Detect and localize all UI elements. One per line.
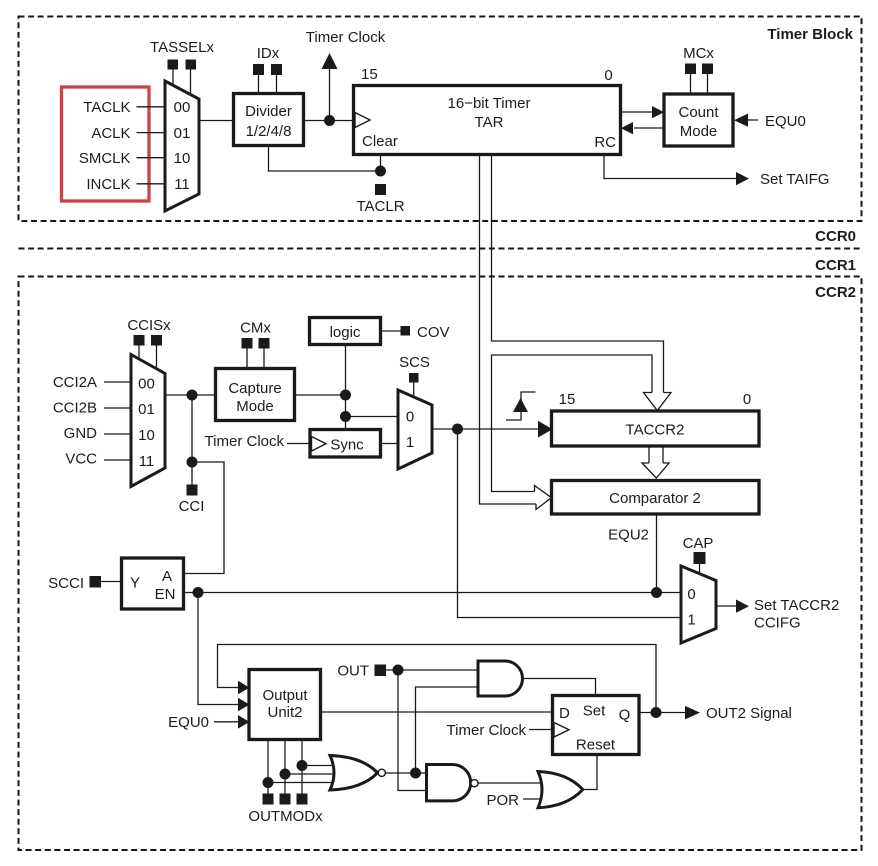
wire TAR bottom to TACLR junction [269, 146, 381, 172]
arrowhead Set TACCR2 CCIFG [736, 600, 749, 613]
wire CMx square 2 to Capture Mode [263, 349, 265, 370]
svg-text:Output: Output [262, 687, 308, 704]
wire mux output to Divider [199, 120, 234, 122]
wire POR to OR [523, 798, 548, 800]
arrowhead EQU0 into Count Mode [734, 114, 748, 127]
block Sync [310, 430, 381, 458]
wire TAR bus right line down, branch to TACCR2 arrow [492, 155, 664, 393]
svg-text:Set TACCR2: Set TACCR2 [754, 597, 839, 614]
wire logic down to Sync [345, 345, 347, 430]
junction OUT2 node [651, 707, 662, 718]
wire Timer Clock to Sync [287, 443, 310, 445]
arrow Timer Clock up [322, 53, 338, 69]
svg-text:Comparator 2: Comparator 2 [609, 490, 701, 507]
wire INCLK to mux [137, 183, 166, 185]
svg-text:Mode: Mode [680, 123, 718, 140]
gate OR (reset) [538, 772, 583, 808]
junction OUTMODx node 3 [297, 760, 308, 771]
wire Sync to SCS mux input 1 [381, 443, 399, 445]
wire OUT down to NAND input [398, 670, 427, 791]
svg-text:0: 0 [687, 586, 695, 603]
arrowhead into Count Mode [652, 106, 664, 118]
block Output Unit2 [249, 670, 321, 740]
svg-text:CCI2A: CCI2A [53, 374, 97, 391]
svg-text:CCISx: CCISx [127, 317, 171, 334]
block logic [310, 318, 381, 345]
svg-text:TACCR2: TACCR2 [626, 422, 685, 439]
open arrowhead into TACCR2 top [644, 393, 672, 411]
wire Count Mode to TAR [634, 127, 664, 129]
junction EN node [193, 587, 204, 598]
wire MCx square 2 to Count Mode [707, 74, 709, 95]
svg-text:00: 00 [174, 99, 191, 116]
junction EQU2 node [651, 587, 662, 598]
wire TASSELx square 1 to mux [172, 70, 174, 87]
TAR clock input triangle [355, 113, 370, 128]
svg-text:EQU2: EQU2 [608, 527, 649, 544]
block Comparator 2 [552, 481, 760, 515]
CCR0 separator dashed line [19, 248, 862, 250]
svg-text:Count: Count [678, 104, 719, 121]
svg-text:POR: POR [486, 792, 519, 809]
TASSELx control terminal squares [168, 60, 179, 70]
wire AND output to Set [523, 679, 596, 696]
register 16-bit Timer TAR [354, 86, 621, 155]
wire logic to COV [381, 330, 401, 332]
svg-text:SCS: SCS [399, 354, 430, 371]
wire OUTMODx branch 1 to NOR [268, 782, 336, 784]
Sync clock triangle [312, 437, 327, 452]
arrowhead EQU0 into Output Unit2 [238, 715, 250, 729]
wire GND to mux [104, 433, 131, 435]
svg-text:Unit2: Unit2 [267, 704, 302, 721]
svg-text:Timer Clock: Timer Clock [447, 722, 527, 739]
svg-text:OUT2 Signal: OUT2 Signal [706, 705, 792, 722]
junction OUTMODx node 1 [263, 777, 274, 788]
svg-text:Sync: Sync [330, 437, 364, 454]
COV terminal square [401, 326, 411, 336]
svg-text:Set TAIFG: Set TAIFG [760, 171, 829, 188]
svg-text:Q: Q [619, 707, 631, 724]
svg-text:CCR0: CCR0 [815, 228, 856, 245]
CMx control terminal squares [242, 338, 253, 349]
wire OUTMODx line 3 [301, 740, 303, 794]
wire OR output to Reset [583, 755, 597, 790]
wire EQU0 to Count Mode [748, 119, 758, 121]
gate AND (set) [478, 661, 523, 696]
svg-text:10: 10 [174, 150, 191, 167]
wire Capture Mode to logic column [295, 394, 346, 396]
junction Timer Clock node [324, 115, 335, 126]
junction capture signal node [452, 424, 463, 435]
wire bypass node to SCS mux input 0 [346, 416, 399, 418]
wire OUTMODx branch 2 to NOR [285, 773, 336, 775]
svg-text:ACLK: ACLK [91, 125, 130, 142]
wire IDx square 2 to Divider [276, 75, 278, 94]
svg-text:EN: EN [155, 586, 176, 603]
wire IDx square 1 to Divider [258, 75, 260, 94]
wire CCI node down [191, 395, 193, 485]
svg-text:RC: RC [594, 134, 616, 151]
svg-text:EQU0: EQU0 [168, 714, 209, 731]
wire TAR bus left line down to Comparator arrow [480, 155, 537, 505]
wire OUT to AND input [386, 669, 478, 671]
wire CAP mux output [716, 605, 736, 607]
flip-flop clock triangle [554, 723, 569, 738]
wire TACLK to mux [137, 106, 166, 108]
OUT terminal square [375, 665, 387, 677]
svg-text:OUT: OUT [337, 663, 369, 680]
svg-text:0: 0 [743, 391, 751, 408]
mux SCS synchronize selector [398, 390, 432, 469]
capture edge symbol [506, 392, 536, 420]
svg-text:Clear: Clear [362, 133, 398, 150]
svg-text:D: D [559, 705, 570, 722]
block Capture Mode [216, 369, 295, 421]
wire CCISx square 2 to mux [156, 346, 158, 371]
svg-text:Reset: Reset [576, 737, 616, 754]
arrowhead EQU2 into Output Unit2 [238, 698, 250, 712]
svg-text:11: 11 [174, 176, 190, 193]
junction OUT node [393, 665, 404, 676]
svg-text:INCLK: INCLK [86, 176, 130, 193]
wire CAP square to mux [699, 564, 701, 575]
SCS control terminal square [409, 373, 419, 383]
block Count Mode [664, 94, 733, 146]
register TACCR2 [552, 411, 760, 446]
junction NOR output node [410, 768, 421, 779]
svg-text:A: A [162, 568, 172, 585]
svg-text:0: 0 [604, 67, 612, 84]
wire Timer Clock stem [329, 69, 331, 121]
wire SCS square to mux [413, 383, 415, 399]
svg-text:TASSELx: TASSELx [150, 39, 214, 56]
svg-text:1/2/4/8: 1/2/4/8 [246, 123, 292, 140]
arrowhead OUT2 Signal [685, 706, 700, 720]
mux CAP capture/compare selector [681, 566, 716, 643]
wire Q output [639, 712, 685, 714]
svg-text:1: 1 [406, 434, 414, 451]
svg-text:Divider: Divider [245, 103, 292, 120]
latch U-SCCI (Y A EN) [122, 558, 184, 609]
wire CCI2A to mux [104, 381, 131, 383]
CCISx control terminal squares [134, 335, 145, 346]
wire OUTMODx line 1 [267, 740, 269, 794]
svg-text:Capture: Capture [228, 380, 281, 397]
junction OUTMODx node 2 [280, 769, 291, 780]
NAND output bubble [471, 780, 478, 787]
arrowhead into TAR [621, 122, 633, 134]
svg-text:TACLR: TACLR [356, 198, 404, 215]
gate NOR (output mode decode) [330, 756, 378, 791]
highlight box (red) around clock inputs [62, 87, 150, 201]
svg-text:15: 15 [361, 66, 378, 83]
svg-text:TACLK: TACLK [83, 99, 130, 116]
wire Output Unit2 to D input [321, 711, 553, 713]
wire SCCI to latch [101, 581, 122, 583]
svg-text:TAR: TAR [475, 114, 504, 131]
wire OUTMODx branch 3 to NOR [302, 765, 336, 767]
wire CCIS mux output to Capture Mode [165, 394, 216, 396]
svg-text:SCCI: SCCI [48, 575, 84, 592]
SCCI terminal square [90, 576, 102, 588]
wire MCx square 1 to Count Mode [690, 74, 692, 95]
wire OUT2 feedback loop [218, 645, 657, 713]
arrowhead feedback into Output Unit2 [238, 681, 250, 695]
svg-text:00: 00 [138, 376, 155, 393]
svg-text:Timer Clock: Timer Clock [205, 433, 285, 450]
gate NAND (reset) [427, 765, 471, 801]
svg-text:IDx: IDx [257, 45, 280, 62]
TACLR terminal square [375, 184, 386, 195]
wire OUTMODx line 2 [284, 740, 286, 794]
wire Timer Clock to flip-flop [529, 729, 553, 731]
svg-text:CCR1: CCR1 [815, 257, 856, 274]
wire CMx square 1 to Capture Mode [246, 349, 248, 370]
wire EN net to CAP mux input 0 [184, 592, 682, 594]
flip-flop D Set Reset [553, 696, 640, 755]
wire VCC to mux [104, 459, 131, 461]
Timer Block dashed border [19, 17, 862, 222]
svg-text:COV: COV [417, 324, 450, 341]
mux TASSELx clock-source selector [165, 81, 199, 211]
junction TACLR node [375, 166, 386, 177]
arrowhead into TACCR2 left [538, 421, 553, 438]
svg-text:15: 15 [559, 391, 576, 408]
mux CCISx capture input selector [131, 355, 165, 487]
svg-text:Set: Set [583, 703, 606, 720]
svg-text:VCC: VCC [65, 451, 97, 468]
svg-text:CAP: CAP [683, 535, 714, 552]
wire TASSELx square 2 to mux [190, 70, 192, 96]
wire NAND output to OR [478, 782, 548, 784]
wire NOR node up to AND input [416, 687, 479, 773]
CCI terminal square [187, 485, 198, 496]
IDx control terminal squares [253, 64, 264, 75]
svg-text:01: 01 [138, 401, 155, 418]
arrowhead Set TAIFG [736, 172, 749, 185]
svg-text:01: 01 [174, 125, 191, 142]
block Divider 1/2/4/8 [234, 94, 304, 146]
svg-text:CCI2B: CCI2B [53, 400, 97, 417]
svg-text:10: 10 [138, 427, 155, 444]
wire SMCLK to mux [137, 157, 166, 159]
svg-text:16−bit Timer: 16−bit Timer [448, 95, 531, 112]
wire TAR to Count Mode [621, 111, 654, 113]
svg-text:CCR2: CCR2 [815, 284, 856, 301]
svg-text:CCIFG: CCIFG [754, 615, 801, 632]
svg-text:11: 11 [139, 453, 155, 470]
NOR output bubble [378, 769, 385, 776]
wire CCISx square 1 to mux [138, 346, 140, 361]
wire NOR output to NAND [386, 772, 428, 774]
wire EQU0 to Output Unit2 [214, 721, 238, 723]
wire CCI branch to latch A input [184, 462, 225, 574]
open arrowhead into Comparator 2 left [535, 486, 552, 510]
wire Divider to TAR [304, 120, 354, 122]
wire CCI2B to mux [104, 407, 131, 409]
svg-text:CMx: CMx [240, 320, 271, 337]
wire ACLK to mux [137, 132, 166, 134]
svg-text:SMCLK: SMCLK [79, 150, 131, 167]
svg-text:Y: Y [130, 575, 140, 592]
wire RC to Set TAIFG [604, 155, 736, 179]
wire EN node down to Output Unit2 middle input [198, 593, 238, 705]
MCx control terminal squares [685, 64, 696, 75]
open arrow TACCR2 to Comparator 2 [648, 447, 650, 464]
CCR2 dashed border [19, 277, 862, 851]
svg-text:1: 1 [687, 612, 695, 629]
svg-text:CCI: CCI [179, 498, 205, 515]
svg-text:EQU0: EQU0 [765, 113, 806, 130]
wire EQU2 from Comparator 2 down [656, 514, 658, 593]
junction capture path node [340, 390, 351, 401]
OUTMODx terminal squares [263, 794, 274, 805]
svg-text:GND: GND [64, 425, 98, 442]
svg-text:logic: logic [330, 324, 361, 341]
svg-text:0: 0 [406, 409, 414, 426]
svg-text:MCx: MCx [683, 45, 714, 62]
svg-text:Timer Block: Timer Block [767, 26, 853, 43]
CAP control terminal square [694, 552, 706, 564]
svg-text:Mode: Mode [236, 398, 274, 415]
wire SCS mux output to TACCR2 [432, 428, 539, 430]
svg-text:Timer Clock: Timer Clock [306, 29, 386, 46]
wire capture signal down to CAP mux input 1 [458, 429, 682, 618]
junction CCI branch node [187, 457, 198, 468]
junction CCI node [187, 390, 198, 401]
wire TAR bus inner branch to TACCR2 and on to Comparator [492, 355, 653, 492]
junction SCS bypass node [340, 411, 351, 422]
svg-text:OUTMODx: OUTMODx [248, 808, 323, 825]
